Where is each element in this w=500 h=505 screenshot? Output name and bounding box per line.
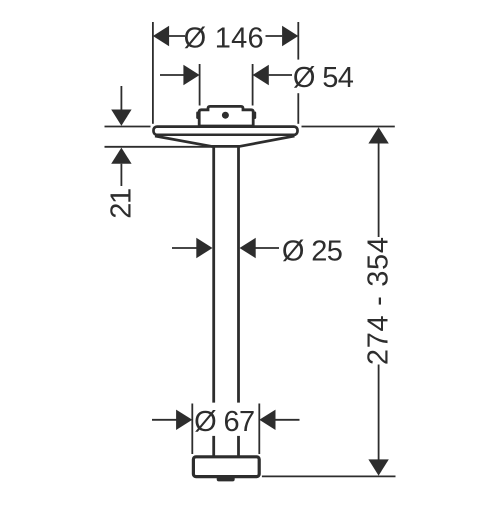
dimension 21 leader line upper [120,86,122,110]
connector box (top coupler on ceiling plate) [199,106,253,126]
dimension Ø67 arrow left (outside, pointing right) [176,410,192,430]
dimension Ø67 leader line right [275,419,299,421]
dimension Ø146 dimension line stubs [169,35,282,37]
svg-text:274 - 354: 274 - 354 [363,236,395,365]
dimension Ø54 leader line right [269,74,292,76]
dimension Ø54 leader line left [160,74,184,76]
connector side tab right [253,112,256,120]
dimension 274-354 arrow top (pointing up) [368,127,388,143]
dimension Ø67 extension line right [258,404,260,455]
dimension 274-354 extension line bottom [262,475,396,477]
dimension Ø25 leader line left [172,247,197,249]
dimension 21 extension line lower [105,146,214,148]
dimension 274-354 arrow bottom (pointing down) [368,459,388,475]
bottom cylinder (wall flange of pipe) [193,457,259,477]
dimension Ø54 extension line left [199,64,201,106]
dimension 21 arrow lower (pointing up) [111,148,131,164]
svg-text:Ø 67: Ø 67 [194,406,255,438]
connector screw dot [222,112,229,119]
bottom tab (aerator nub) [217,478,235,482]
dimension Ø54 extension line right [252,64,254,106]
dimension 274-354 dimension line (gap for text) [378,143,380,460]
dimension Ø67 leader line left [152,419,177,421]
pipe left edge (gap for Ø67 label) [212,147,215,457]
dimension Ø25 arrow left (outside, pointing right) [196,238,212,258]
dimension Ø67 extension line left [191,404,193,455]
dimension 21 extension line upper [105,126,151,128]
ceiling plate [154,127,298,135]
svg-text:Ø 146: Ø 146 [184,23,264,55]
dimension Ø146 arrow left [153,26,169,46]
escutcheon cone [155,136,295,146]
dimension Ø67 arrow right (outside, pointing left) [259,410,275,430]
dimension Ø146 extension line left [152,22,154,124]
svg-text:21: 21 [105,188,137,219]
dimension Ø54 arrow left (outside, pointing right) [183,65,199,85]
pipe right edge (gap for Ø67 label) [237,147,240,457]
dimension Ø54 arrow right (outside, pointing left) [253,65,269,85]
dimension 21 arrow upper (pointing down) [111,110,131,126]
dimension Ø25 arrow right (outside, pointing left) [240,238,256,258]
dimension Ø146 extension line right (gap for Ø54 text) [297,22,299,124]
dimension Ø146 arrow right [282,26,298,46]
svg-text:Ø 25: Ø 25 [282,236,343,268]
dimension Ø25 leader line right [256,247,280,249]
svg-text:Ø 54: Ø 54 [293,62,354,94]
dimension 21 leader line lower [120,164,122,186]
connector side tab left [196,112,199,120]
dimension 274-354 extension line top [302,126,395,128]
